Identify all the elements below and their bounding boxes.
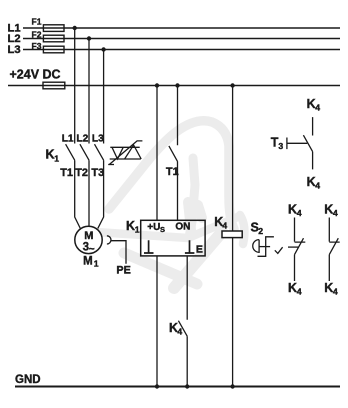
svg-text:4: 4 [315, 103, 320, 113]
svg-text:4: 4 [297, 208, 302, 218]
svg-text:K: K [324, 203, 333, 217]
svg-text:L3: L3 [92, 134, 104, 145]
svg-text:E: E [196, 244, 203, 256]
svg-text:K: K [307, 97, 316, 111]
svg-text:ON: ON [175, 221, 190, 232]
svg-text:T1: T1 [60, 167, 73, 179]
svg-text:~: ~ [89, 244, 95, 255]
svg-text:T1: T1 [166, 166, 179, 178]
svg-text:K: K [288, 203, 297, 217]
svg-text:4: 4 [222, 221, 227, 231]
svg-text:2: 2 [258, 226, 263, 236]
svg-text:+U: +U [147, 222, 160, 233]
svg-text:K: K [307, 175, 316, 189]
svg-text:T3: T3 [91, 167, 104, 179]
svg-text:1: 1 [135, 225, 140, 235]
svg-text:K: K [324, 281, 333, 295]
svg-text:L1: L1 [62, 134, 74, 145]
svg-text:4: 4 [333, 208, 338, 218]
svg-text:L3: L3 [8, 44, 21, 56]
svg-text:GND: GND [15, 374, 41, 386]
svg-text:K: K [46, 147, 55, 161]
svg-text:1: 1 [94, 259, 99, 269]
svg-text:T2: T2 [75, 167, 88, 179]
svg-text:4: 4 [333, 287, 338, 297]
svg-text:4: 4 [315, 181, 320, 191]
svg-text:3: 3 [278, 141, 283, 151]
svg-text:F1: F1 [32, 17, 42, 27]
svg-text:K: K [288, 281, 297, 295]
svg-text:+24V DC: +24V DC [10, 67, 61, 81]
svg-text:M: M [84, 230, 93, 242]
svg-text:PE: PE [116, 265, 130, 277]
svg-text:4: 4 [177, 327, 182, 337]
svg-text:F2: F2 [32, 30, 42, 40]
svg-text:S: S [160, 225, 165, 234]
svg-text:4: 4 [297, 287, 302, 297]
svg-text:L2: L2 [76, 134, 88, 145]
svg-text:1: 1 [54, 153, 59, 163]
svg-text:K: K [126, 219, 135, 233]
svg-text:F3: F3 [32, 41, 42, 51]
svg-text:M: M [83, 255, 93, 267]
